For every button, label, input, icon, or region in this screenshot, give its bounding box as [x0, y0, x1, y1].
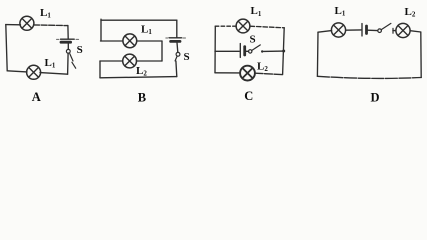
- wire: C left vertical: [214, 26, 216, 73]
- wire: C top wire: [215, 25, 236, 27]
- wire: D left vertical: [316, 32, 319, 76]
- wire: C middle wire right: [264, 50, 285, 52]
- svg-text:D: D: [371, 91, 380, 105]
- wire: switch to lamp L2: [393, 30, 396, 32]
- wire: lamp to battery: [346, 29, 361, 31]
- wire: A top wire: [6, 24, 21, 26]
- svg-text:S: S: [184, 51, 190, 63]
- wire: A right vertical upper: [67, 26, 69, 39]
- battery D: short thick plate: [365, 26, 368, 34]
- wire: B top wire: [101, 19, 177, 21]
- wire: C right vertical: [283, 28, 285, 75]
- lamp L1 (C top): [236, 19, 250, 33]
- battery A: short thick plate: [61, 41, 71, 44]
- svg-text:C: C: [244, 89, 253, 103]
- switch C: pivot circle: [249, 50, 252, 53]
- wire: C bottom wire: [215, 72, 240, 74]
- wire: switch to bottom: [67, 53, 70, 74]
- wire: B battery to switch: [176, 43, 179, 53]
- lamp L2 (B bottom branch): [123, 54, 137, 68]
- lamp L1 (B top branch): [123, 34, 137, 48]
- switch C: blade: [252, 45, 261, 51]
- lamp L1 (A top): [20, 16, 34, 30]
- switch B: blade: [175, 56, 177, 61]
- wire: D top wire right: [410, 31, 421, 32]
- wire: B branch L2 left: [100, 60, 123, 62]
- switch D: pivot circle: [378, 29, 382, 33]
- switch C: contact dot: [261, 50, 263, 52]
- wire: C battery to switch: [246, 50, 249, 52]
- wire: A bottom wire: [7, 71, 27, 72]
- battery B: long plate: [169, 37, 182, 39]
- wire: A left vertical: [6, 25, 7, 71]
- wire: B left vertical lower: [99, 61, 101, 78]
- svg-text:S: S: [250, 34, 256, 46]
- lamp L1 (D left): [331, 23, 345, 37]
- switch D: blade: [381, 23, 391, 29]
- battery B: short thick plate: [171, 40, 180, 43]
- switch D: contact: [392, 28, 394, 33]
- battery D: long plate: [361, 24, 363, 37]
- svg-text:A: A: [32, 90, 41, 104]
- svg-text:B: B: [138, 91, 146, 105]
- wire: C middle wire left: [215, 50, 239, 52]
- switch A: pivot circle: [66, 49, 70, 53]
- lamp L2 (D right): [396, 23, 410, 37]
- wire: D right vertical: [420, 32, 422, 78]
- wire: D top wire left: [318, 31, 332, 33]
- switch A: blade: [70, 54, 73, 61]
- wire: B branch L1 right: [137, 40, 162, 42]
- wire: B bottom wire: [100, 77, 177, 78]
- battery C: long plate: [239, 44, 241, 58]
- wire: B branch L1 left: [101, 40, 124, 42]
- wire: B right vertical upper: [176, 20, 178, 37]
- wire: D bottom wire: [317, 76, 421, 78]
- wire: battery to switch: [367, 29, 377, 31]
- junction dot C middle-right: [282, 50, 285, 53]
- wire: B switch to bottom: [175, 61, 178, 77]
- wire: B inner vertical: [161, 41, 163, 61]
- svg-text:S: S: [77, 44, 83, 56]
- lamp L2 (A bottom): [27, 65, 41, 79]
- lamp L2 (C bottom): [240, 66, 255, 81]
- battery A: long plate: [61, 38, 75, 40]
- battery C: short thick plate: [243, 47, 246, 55]
- wire: B branch L2 right: [137, 60, 163, 62]
- switch B: pivot circle: [176, 52, 180, 56]
- wire: B left vertical upper: [100, 19, 102, 41]
- wire: battery to switch: [67, 43, 69, 49]
